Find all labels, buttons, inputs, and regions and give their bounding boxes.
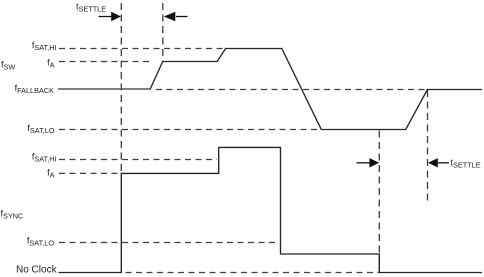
wire dashed level fFALLBACK <box>156 89 427 91</box>
wire dashed level fSAT,HI top <box>59 48 226 50</box>
wire dashed level fA top <box>59 61 152 63</box>
node tSETTLE label top-left <box>76 2 106 14</box>
wire vertical dashed V3 at x=378.8 <box>378 131 380 273</box>
wire dashed level fSAT,LO bottom <box>59 242 276 244</box>
wire vertical dashed V2 at x=162.6 <box>162 3 164 62</box>
wire dashed level fSAT,HI bottom <box>59 159 217 161</box>
wire dashed level No Clock <box>126 272 380 274</box>
wire waveform fSW solid <box>150 49 482 130</box>
wire arrow-tail A2 <box>176 16 188 18</box>
node arrowhead A3 pointing right at V3 <box>369 158 379 167</box>
node arrowhead A1 pointing right at V1 <box>111 12 121 21</box>
wire dashed level fSAT,LO top <box>59 129 320 131</box>
node arrowhead A2 pointing left at V2 <box>164 12 176 21</box>
wire vertical dashed V4 at x=427.4 <box>427 90 429 204</box>
wire arrow-tail A4 <box>438 162 449 164</box>
wire level fFALLBACK solid gray start segment <box>58 88 151 90</box>
svg-text:No Clock: No Clock <box>16 265 58 276</box>
wire vertical dashed V1 at x=120.7 <box>120 3 122 173</box>
node arrowhead A4 pointing left at V4 <box>428 158 438 167</box>
wire arrow-tail A3 <box>357 162 371 164</box>
wire arrow-tail A1 <box>99 16 113 18</box>
wire waveform fSYNC solid <box>59 147 483 272</box>
wire dashed level fA bottom <box>59 172 121 174</box>
